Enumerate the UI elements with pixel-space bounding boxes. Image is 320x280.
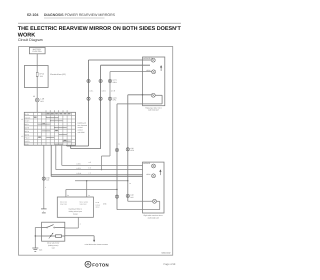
wire relay output to switch <box>65 217 79 228</box>
BCM bracket labels left <box>21 118 23 138</box>
BCM grid row labels <box>25 113 31 146</box>
junction dot riser-common on H-b <box>101 169 102 170</box>
wire H-c double pair BCM feed <box>51 145 142 177</box>
ground G15 <box>32 248 38 251</box>
wire H-e relay pin to line A <box>66 190 117 198</box>
svg-text:A02: A02 <box>130 196 133 199</box>
wire gauge labels on H runs <box>77 161 91 175</box>
motor M2 right mirror U/D <box>146 69 156 74</box>
wire H-d BCM to relay and line B <box>75 180 128 182</box>
footer logo FOTON <box>85 261 109 267</box>
motor M4 fold coil <box>152 164 156 168</box>
wire return loop lower right box <box>117 201 160 209</box>
BCM internal contact segments <box>38 114 71 144</box>
relay caption <box>69 208 83 216</box>
motor M6 fold motor <box>153 199 157 203</box>
BCM label right <box>78 121 88 134</box>
svg-text:G15: G15 <box>39 249 42 252</box>
wire to door connector with arrow <box>65 236 94 241</box>
svg-text:30: 30 <box>33 95 35 98</box>
svg-text:X1: X1 <box>21 118 23 121</box>
svg-text:GR11: GR11 <box>113 81 117 84</box>
svg-text:MIRROR: MIRROR <box>143 162 151 165</box>
svg-text:0.5 L: 0.5 L <box>90 89 94 92</box>
diagram border frame <box>19 47 173 256</box>
wire left rail to ground <box>35 228 41 249</box>
svg-text:M6210402: M6210402 <box>162 252 171 255</box>
svg-text:b 3: b 3 <box>89 166 91 169</box>
junction dot H-d on line B <box>127 180 128 181</box>
switch contacts <box>47 227 48 228</box>
motor M3 right mirror fold <box>151 93 155 97</box>
svg-text:62-104: 62-104 <box>27 13 39 17</box>
svg-text:X2: X2 <box>21 135 23 138</box>
header rule <box>18 22 181 24</box>
motor M5 unfold coil <box>146 173 156 178</box>
wire return loop right mirror (line A top) <box>117 95 162 209</box>
svg-text:A01: A01 <box>40 100 43 103</box>
wire connector C32 to BCM grid <box>36 102 38 112</box>
wire H-a BCM to left door mirror fold <box>62 145 143 166</box>
lower right mirror box (right door mirror) <box>143 162 165 213</box>
motor M1 right mirror L/R <box>151 58 155 62</box>
svg-text:THE ELECTRIC REARVIEW MIRROR O: THE ELECTRIC REARVIEW MIRROR ON BOTH SID… <box>18 26 182 32</box>
wire relay coil tap <box>86 181 88 197</box>
BCM grid top pin ticks <box>46 110 67 112</box>
svg-text:Electrical box (EF): Electrical box (EF) <box>50 73 66 76</box>
arrow head door connector <box>93 240 95 242</box>
relay K5 folding mirror control <box>57 197 93 217</box>
caption right mirror box <box>145 106 162 111</box>
junction dot at right box edge <box>142 94 143 95</box>
fuse EF10 symbol inside electrical box <box>36 66 44 88</box>
junction dot relay tap on H-d <box>86 180 87 181</box>
connector C32 <box>35 98 45 103</box>
connector pair on A and B lower <box>115 194 133 199</box>
svg-text:A05: A05 <box>46 179 49 182</box>
wire feed fold motor right (line B top) <box>128 95 152 202</box>
BCM grid column header specks <box>34 113 71 141</box>
svg-text:FOLD: FOLD <box>25 137 30 140</box>
BCM central control unit grid <box>24 112 75 145</box>
svg-text:c 1: c 1 <box>89 172 91 175</box>
connector row C41 upper <box>87 79 117 84</box>
connector on ground drop <box>42 176 50 181</box>
connector pair on lines A and B <box>115 147 135 152</box>
resistor inside left mirror box <box>42 233 65 239</box>
arrow up lower right box <box>159 169 161 175</box>
wire riser mirror-right: grid pin to top run <box>71 65 150 148</box>
svg-text:0.5 Gr: 0.5 Gr <box>77 172 82 175</box>
svg-text:Circuit Diagram: Circuit Diagram <box>18 38 43 42</box>
right mirror assembly box (passenger side) <box>143 57 165 106</box>
header underline <box>44 17 105 19</box>
junction dot H-e on line A <box>116 189 117 190</box>
wire color labels mid <box>90 89 116 92</box>
relay internal labels <box>60 200 88 205</box>
fuse box F1 (battery fuse) <box>29 47 45 53</box>
wire riser mirror-left: grid pin to top run <box>67 60 151 146</box>
svg-text:unit BCM: unit BCM <box>78 131 86 134</box>
svg-text:a 5: a 5 <box>89 161 91 164</box>
svg-text:FOTON: FOTON <box>92 262 109 267</box>
wire BCM ground drop with connector <box>43 145 45 209</box>
caption lower right box <box>144 214 164 219</box>
svg-text:IG115: IG115 <box>25 120 30 123</box>
svg-text:MIRL: MIRL <box>25 123 29 126</box>
svg-text:FUSE 30A: FUSE 30A <box>33 50 43 53</box>
svg-text:(with fold) C48: (with fold) C48 <box>148 216 159 219</box>
inline connector (wire to wire) <box>41 209 47 213</box>
junction dot left rail <box>35 235 36 236</box>
relay pin labels <box>67 194 90 197</box>
relay side label <box>96 201 101 209</box>
electrical box EF <box>24 66 48 88</box>
svg-text:Page 2/18: Page 2/18 <box>164 263 176 266</box>
svg-text:(with fold) C47: (with fold) C47 <box>148 109 159 112</box>
caption left mirror box <box>47 242 60 250</box>
switch inside left mirror box <box>42 225 65 228</box>
wire line B into fold motor <box>128 200 153 202</box>
svg-text:DIAGNOSIS POWER REARVIEW MIRRO: DIAGNOSIS POWER REARVIEW MIRRORS <box>44 13 116 17</box>
BCM grid cell dots <box>42 114 64 142</box>
arrow up right mirror <box>160 65 162 71</box>
svg-text:B+30: B+30 <box>25 113 29 116</box>
wire electrical box to connector C32 <box>36 88 38 99</box>
left door mirror box (driver side) <box>42 222 65 241</box>
wire fuse box to electrical box <box>36 54 38 66</box>
wire H-b BCM to left door mirror unfold <box>56 145 143 170</box>
wire riser mirror-common: top run <box>102 72 152 170</box>
svg-text:ACC15: ACC15 <box>25 116 31 119</box>
connector row C48 lower <box>87 96 117 101</box>
svg-text:UNFD: UNFD <box>25 140 30 143</box>
